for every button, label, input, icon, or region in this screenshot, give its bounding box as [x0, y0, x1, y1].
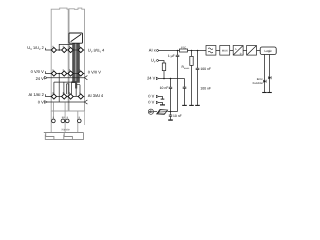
stub jog to AI2 contact — [63, 82, 65, 94]
svg-text:24 V: 24 V — [36, 76, 45, 81]
svg-text:MUX: MUX — [222, 50, 228, 53]
wire AI input — [159, 50, 207, 52]
tag 0V second — [156, 101, 158, 103]
lower housing line right — [77, 111, 79, 132]
svg-text:1 µF: 1 µF — [168, 54, 175, 58]
UV terminal circle — [157, 60, 159, 62]
A/D diagonal — [234, 46, 243, 55]
stub jog to AI4 contact — [77, 85, 80, 94]
earth bus wire — [167, 111, 177, 113]
wire UV — [159, 61, 165, 64]
LED function symbol — [268, 76, 271, 79]
ground LED error — [262, 92, 267, 94]
ground 100nF upper — [195, 104, 200, 106]
tag 24V left — [45, 76, 48, 79]
wire LED function — [269, 55, 271, 93]
svg-text:AI 3/AI 4: AI 3/AI 4 — [88, 93, 104, 98]
filter box — [206, 46, 216, 56]
A/D converter box — [233, 46, 243, 56]
svg-text:0 V: 0 V — [148, 100, 154, 105]
riser row1 to converter — [59, 44, 72, 50]
pin number specks row2 — [53, 69, 81, 71]
wire isolation to logic — [257, 50, 261, 52]
contact diamonds row3 — [51, 94, 83, 99]
jog line dark segment — [72, 81, 77, 83]
wire earth circle to rail icon — [154, 111, 158, 113]
wire A/D to isolation — [243, 50, 247, 52]
fork 24V right — [84, 76, 87, 80]
ground Rmess — [189, 104, 194, 106]
MUX box — [220, 46, 230, 56]
contact diamonds row2 — [51, 71, 83, 76]
svg-text:0 V/0 V: 0 V/0 V — [31, 69, 44, 74]
junction dot row2 dropper — [58, 73, 60, 75]
dropper to jumper contact 3 — [64, 102, 66, 132]
chassis ground bar — [168, 119, 173, 120]
module housing column A outline — [51, 8, 68, 111]
svg-text:10 nF: 10 nF — [160, 86, 169, 90]
capacitor 1uF — [176, 51, 180, 112]
module housing column B outline — [69, 8, 85, 111]
wire LED error — [264, 55, 266, 93]
svg-text:Error: Error — [257, 78, 263, 81]
power jumper bar thin continuation — [76, 89, 77, 97]
svg-text:UV 3/UV 4: UV 3/UV 4 — [88, 48, 105, 54]
capacitor 100nF lower (24V branch) — [183, 79, 187, 106]
jumper contact circle 2 — [61, 119, 65, 123]
0V supply line — [48, 101, 85, 103]
filter waves — [208, 48, 213, 53]
svg-text:0 V: 0 V — [38, 100, 44, 105]
capacitor 10nF (24V to earth) — [169, 79, 172, 112]
LED error symbol — [263, 80, 266, 83]
node dot 10nF on bus — [170, 78, 172, 80]
earth symbol circle — [148, 109, 153, 114]
jog line 2 — [67, 83, 69, 85]
svg-text:10 nF: 10 nF — [173, 114, 182, 118]
isolation diagonal — [247, 46, 256, 55]
svg-text:750-459: 750-459 — [61, 129, 70, 132]
tag 0V left — [45, 101, 48, 104]
node dot 100nF — [197, 50, 199, 52]
svg-text:0 V/0 V: 0 V/0 V — [88, 70, 101, 75]
svg-text:100 nF: 100 nF — [200, 67, 211, 71]
ground 100nF lower — [182, 104, 187, 106]
24V supply line — [48, 77, 85, 79]
svg-text:PTC: PTC — [181, 46, 186, 49]
resistor PTC (series) — [180, 49, 188, 52]
jumper contact circle 1 — [52, 119, 56, 123]
wire 0V first — [159, 97, 163, 100]
power jumper bar highlight core — [75, 43, 77, 83]
stub jog to AI1 contact — [53, 82, 55, 94]
jumper contact circle 4 — [78, 119, 82, 123]
svg-text:UV 1/UV 2: UV 1/UV 2 — [27, 45, 44, 51]
isolation box — [247, 46, 257, 56]
svg-text:AI 1/AI 2: AI 1/AI 2 — [28, 92, 44, 97]
row left entry ticks — [44, 48, 46, 97]
dropper to jumper contact 1 — [52, 102, 54, 119]
tag 0V first — [156, 95, 158, 97]
wire resistor to 24V bus — [163, 71, 165, 79]
wire 0V second — [159, 103, 163, 105]
wire row2 0V — [45, 73, 84, 75]
DIN rail icon — [157, 110, 168, 115]
tag 24V — [156, 77, 158, 79]
capacitor 100nF upper — [196, 51, 200, 106]
lower housing edge right outer — [84, 111, 86, 125]
stub jog to AI2 contact b — [66, 84, 68, 94]
node dot 1uF — [177, 50, 179, 52]
node dot UV resistor on bus — [163, 78, 165, 80]
pin number specks row1 — [53, 46, 81, 48]
DIN rail profile — [44, 133, 84, 140]
jumper contact specks — [53, 117, 80, 119]
pin number specks row3 — [53, 92, 81, 94]
svg-text:Function: Function — [253, 82, 264, 85]
ground 0V second — [160, 104, 165, 106]
ground LED function — [267, 92, 272, 94]
converter box U1 (with diagonal) — [69, 33, 83, 43]
power jumper bar lower stub — [75, 83, 77, 89]
input terminal circle — [157, 50, 159, 52]
wire row1 UV — [45, 49, 84, 51]
svg-text:0 V: 0 V — [148, 94, 154, 99]
power jumper bar (dark) — [72, 43, 80, 83]
wire row3 AI — [45, 96, 84, 98]
resistor UV supply — [162, 63, 165, 71]
logic box — [260, 47, 276, 55]
node dot Rmess — [191, 50, 193, 52]
wire filter to MUX — [216, 50, 220, 52]
svg-text:Logic: Logic — [264, 49, 272, 53]
ground 0V first — [161, 98, 165, 100]
svg-text:24 V: 24 V — [147, 76, 156, 81]
wire MUX to A/D — [230, 50, 234, 52]
node dot earth bus — [170, 111, 172, 113]
dropper row2 to 0V line — [58, 74, 60, 103]
stub jog to AI3 contact b — [71, 82, 73, 94]
svg-text:100 nF: 100 nF — [200, 87, 211, 91]
stub jog to AI3 contact — [68, 84, 70, 94]
contact diamonds row1 — [51, 47, 83, 52]
24V bus wire — [159, 78, 185, 80]
svg-text:AI x: AI x — [149, 48, 156, 53]
resistor Rmess — [191, 51, 193, 106]
jog line between rows — [54, 81, 72, 83]
lower housing line left — [50, 111, 52, 132]
junction dot row1 — [58, 49, 60, 51]
jumper contact circle 3 — [66, 119, 70, 123]
capacitor 10nF to chassis — [169, 112, 172, 120]
converter box diagonal — [71, 34, 82, 41]
fork 0V right — [84, 100, 87, 104]
